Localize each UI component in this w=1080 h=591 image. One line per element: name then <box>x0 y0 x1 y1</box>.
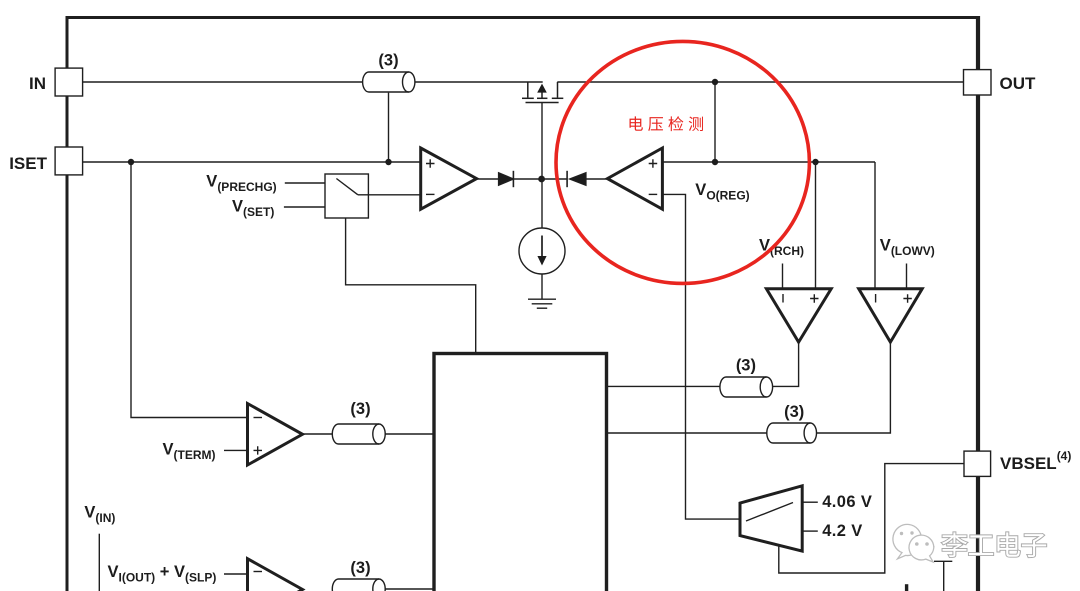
wire ISET rail <box>83 161 421 163</box>
wire D2 to U2 output <box>586 178 608 180</box>
char 李 <box>942 532 967 557</box>
op-amp U4 sleep comparator (clipped at bottom) <box>248 559 303 591</box>
svg-text:4.2 V: 4.2 V <box>822 522 863 540</box>
wire OUT rail from FET to OUT pin <box>557 81 963 83</box>
delay element (3) for V(RCH) <box>720 377 773 397</box>
pin VBSEL <box>964 451 991 476</box>
char 检 <box>668 116 683 131</box>
svg-text:(3): (3) <box>350 400 370 418</box>
pin OUT <box>964 70 992 95</box>
I1 arrow <box>541 236 543 258</box>
U6 plus marker <box>903 294 911 302</box>
op-amp U3 termination comparator <box>248 404 303 466</box>
U1 plus marker <box>426 159 435 168</box>
wire sleep comparator input <box>224 573 248 575</box>
wire V(SET) input <box>284 206 325 208</box>
wire Q1 gate down to drive node <box>541 103 543 180</box>
wire TS network stub (cropped) <box>934 561 952 591</box>
annotation red circle <box>556 41 809 283</box>
svg-text:(3): (3) <box>784 403 804 421</box>
svg-text:IN: IN <box>29 74 46 93</box>
wire sense branch to U5 plus <box>815 162 817 289</box>
char 测 <box>689 117 703 132</box>
pin IN <box>55 68 83 96</box>
wire V(TERM) input <box>224 449 248 451</box>
wire switch box to U1 inverting input <box>358 194 421 196</box>
wire delay to control box <box>385 433 434 435</box>
svg-text:V(IN): V(IN) <box>84 503 115 525</box>
U4 minus marker <box>254 571 263 573</box>
char 子 <box>1022 534 1046 557</box>
svg-text:V(PRECHG): V(PRECHG) <box>206 173 276 195</box>
U2 plus marker <box>649 159 658 168</box>
battery symbol top (cropped) <box>905 584 908 591</box>
wire U2 inverting feedback to divider mux <box>662 194 740 519</box>
mux voltage selector trapezoid <box>740 486 802 551</box>
wire ISET branch down to V(TERM) amp <box>131 162 248 418</box>
wire mux select to VBSEL <box>779 464 964 573</box>
node dot sense rail branch <box>812 159 818 165</box>
wire V(RCH) label stub <box>782 264 784 289</box>
U5 minus marker <box>782 294 784 303</box>
delay element (3) for V(TERM) <box>332 424 385 444</box>
wire delay stub down to ISET rail <box>388 93 390 162</box>
watermark text <box>942 532 1046 557</box>
U2 minus marker <box>649 193 658 195</box>
pin ISET <box>55 147 83 175</box>
wire U3 output to delay <box>303 433 333 435</box>
wire IN rail mid segment to FET <box>415 81 543 83</box>
switch contact line <box>336 179 358 195</box>
wire U5 output to delay <box>772 342 798 386</box>
svg-text:ISET: ISET <box>9 154 47 173</box>
node dot sense rail at tap <box>712 159 718 165</box>
char 电 <box>997 532 1020 556</box>
op-amp U1 current error amp <box>421 148 477 209</box>
wire U2 non-inverting sense rail <box>662 161 875 163</box>
wire sense rail to U6 minus <box>874 162 876 289</box>
svg-text:(3): (3) <box>350 559 370 577</box>
wire 4.2V input stub <box>802 530 818 532</box>
delay element (3) on IN rail <box>363 72 415 92</box>
svg-text:4.06 V: 4.06 V <box>822 493 872 511</box>
svg-text:V(SET): V(SET) <box>232 197 274 219</box>
U1 minus marker <box>426 193 435 195</box>
char 工 <box>969 535 993 555</box>
U3 plus marker <box>254 446 263 454</box>
U3 minus marker <box>254 417 263 419</box>
comparator U6 V(LOWV) <box>859 289 923 342</box>
svg-text:V(TERM): V(TERM) <box>163 441 216 463</box>
watermark wechat icon <box>893 524 934 562</box>
wire switch box bottom to control logic box <box>346 218 476 354</box>
delay element (3) for sleep comparator <box>332 579 385 591</box>
wire delay to control box <box>608 385 720 387</box>
wire I1 to ground <box>541 274 543 299</box>
char 压 <box>648 117 663 131</box>
wire U6 output to delay <box>817 342 891 433</box>
node drive junction dot <box>538 176 545 183</box>
annotation text 电压检测 <box>630 116 703 131</box>
svg-text:V(LOWV): V(LOWV) <box>880 237 935 259</box>
wire V(IN) down <box>98 534 100 591</box>
node dot on OUT rail <box>712 79 718 85</box>
wire OUT rail sense tap down <box>714 82 716 162</box>
current source I1 <box>519 228 565 274</box>
svg-text:(3): (3) <box>736 356 756 374</box>
wire D1 to drive node <box>513 178 541 180</box>
wire V(PRECHG) input <box>285 182 325 184</box>
U6 minus marker <box>875 294 877 303</box>
comparator U5 V(RCH) <box>766 289 831 342</box>
wire drive node to D2 <box>542 178 568 180</box>
diode D2 <box>566 171 568 187</box>
node junction dot ISET/V(TERM) <box>128 159 134 165</box>
svg-text:VO(REG): VO(REG) <box>695 181 749 203</box>
control logic box <box>434 354 607 591</box>
svg-text:OUT: OUT <box>1000 74 1037 93</box>
transistor Q1 body arrow <box>537 84 547 93</box>
svg-text:(3): (3) <box>378 52 398 70</box>
diode D1 <box>499 173 514 185</box>
U5 plus marker <box>810 294 818 302</box>
wire IN rail left segment <box>83 81 363 83</box>
wire V(LOWV) label stub <box>906 264 908 289</box>
char 电 <box>630 116 643 130</box>
delay element (3) for V(LOWV) <box>767 423 817 443</box>
wire sleep delay to control box <box>385 588 434 590</box>
wire delay to control box <box>608 432 767 434</box>
op-amp U2 voltage reg amp (points left) <box>607 148 662 209</box>
ground <box>528 299 556 308</box>
wire drive node to I1 <box>541 179 543 228</box>
node junction dot ISET/delay stub <box>385 159 391 165</box>
mux switch contact <box>746 503 793 522</box>
transistor Q1 pass PMOS <box>522 82 563 103</box>
switch box V(PRECHG)/V(SET) <box>325 174 368 218</box>
svg-text:VI(OUT) + V(SLP): VI(OUT) + V(SLP) <box>108 563 217 585</box>
wire U1 output to diode D1 <box>477 178 499 180</box>
wire 4.06V input stub <box>802 501 818 503</box>
svg-text:VBSEL(4): VBSEL(4) <box>1000 449 1071 473</box>
